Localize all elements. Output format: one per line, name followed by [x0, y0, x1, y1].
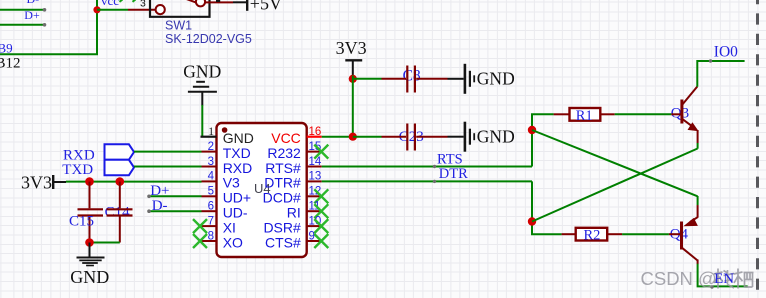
wire RTS riser to R1: [532, 114, 554, 166]
pin1 dot inside chip: [222, 127, 228, 133]
pin 8 line: [202, 240, 217, 242]
wire Q4 collector to EN: [698, 264, 748, 287]
wire DTR (pin13): [322, 180, 532, 182]
wire TXD to pin3: [134, 166, 202, 168]
power ground symbol (top, inverted earth): [188, 82, 217, 106]
wire Q3 collector to IO0: [697, 61, 744, 87]
no-ERC X pin 10: [314, 219, 328, 233]
wire diagonal RTS to Q4 emitter: [532, 130, 698, 196]
pin 14 line: [307, 166, 322, 168]
svg-text:5: 5: [208, 186, 214, 198]
svg-text:3V3: 3V3: [21, 172, 52, 192]
svg-text:R232: R232: [267, 145, 301, 161]
svg-text:D-: D-: [27, 0, 40, 6]
wire Q4 emitter to diagonal: [697, 196, 699, 205]
svg-text:16: 16: [309, 126, 322, 138]
wire to C8: [353, 78, 382, 80]
svg-text:UD+: UD+: [223, 190, 251, 206]
svg-text:6: 6: [208, 201, 214, 213]
pin 7 line: [202, 225, 217, 227]
wire C14 to GND node: [90, 242, 120, 244]
svg-text:3: 3: [140, 0, 146, 9]
3V3 stem: [53, 181, 66, 183]
svg-text:vcc: vcc: [101, 0, 119, 8]
SW1 contact circle pin2: [196, 0, 205, 6]
op IC U4 body: [217, 123, 307, 257]
wire D-: [0, 9, 45, 11]
svg-text:DTR#: DTR#: [264, 175, 301, 191]
pin 16 line (VCC): [307, 136, 322, 138]
svg-text:B9: B9: [0, 40, 13, 55]
SW1 contact circle pin3: [156, 5, 165, 14]
pin 11 line: [307, 210, 322, 212]
pin 13 line: [307, 180, 322, 182]
svg-text:RI: RI: [287, 205, 301, 221]
svg-text:RTS#: RTS#: [265, 160, 301, 176]
svg-text:SW1: SW1: [165, 18, 192, 32]
wire net B9 row: [0, 0, 97, 54]
ground GND (right of C8): [448, 64, 475, 94]
svg-text:SK-12D02-VG5: SK-12D02-VG5: [165, 32, 252, 46]
svg-text:7: 7: [208, 215, 214, 227]
svg-text:EN: EN: [714, 271, 734, 287]
power port 3V3 left bar: [52, 175, 54, 189]
capacitor C23: [382, 124, 448, 151]
watermark CJK glyphs: [714, 269, 754, 289]
wire D+ to pin5: [149, 195, 202, 197]
capacitor C8: [382, 66, 448, 93]
wire D+: [0, 24, 45, 26]
svg-text:GND: GND: [477, 126, 515, 146]
svg-text:R1: R1: [576, 108, 593, 124]
svg-text:DSR#: DSR#: [263, 219, 301, 235]
transistor Q4: [669, 205, 698, 264]
wire R2 to Q4 base: [622, 233, 669, 235]
vcc compile ticks: [120, 0, 123, 2]
resistor R1: [554, 113, 570, 115]
svg-text:DCD#: DCD#: [263, 190, 301, 206]
wire R1 to Q3 base: [615, 113, 672, 115]
svg-text:D+: D+: [24, 8, 40, 22]
wire to +5V: [233, 1, 247, 3]
svg-text:+5V: +5V: [250, 0, 282, 13]
svg-text:R2: R2: [584, 228, 601, 244]
no-ERC X pin 8: [193, 234, 207, 248]
wire vcc to SW1: [97, 9, 128, 11]
wire RTS (pin14): [322, 166, 532, 168]
wire diagonal DTR to Q3 emitter: [532, 149, 698, 222]
wire DTR dropper to R2: [532, 181, 562, 234]
svg-text:UD-: UD-: [223, 205, 248, 221]
no-ERC X pin 12: [314, 189, 328, 203]
capacitor C14: [107, 182, 133, 243]
junction GND node: [85, 238, 94, 247]
ground GND (right of C23): [448, 122, 475, 152]
pin 5 line: [202, 195, 217, 197]
svg-text:V3: V3: [223, 175, 240, 191]
junction vcc node: [93, 6, 100, 13]
pin 15 line: [307, 151, 322, 153]
svg-text:IO0: IO0: [714, 43, 738, 60]
harness arrow RXD: [105, 144, 135, 160]
svg-text:GND: GND: [223, 130, 254, 146]
wire to C23: [353, 136, 382, 138]
3V3 top stem: [352, 60, 354, 75]
svg-text:3: 3: [208, 156, 214, 168]
pin 9 line: [307, 240, 322, 242]
pin 4 line: [202, 180, 217, 182]
wire Q3 emitter to diagonal: [697, 143, 699, 149]
svg-text:GND: GND: [477, 69, 515, 89]
junction DTR node: [528, 217, 536, 225]
no-ERC X pin 11: [314, 204, 328, 218]
svg-text:VCC: VCC: [271, 130, 301, 146]
pin 3 lead of SW1: [128, 9, 156, 11]
svg-text:RXD: RXD: [223, 160, 253, 176]
svg-text:14: 14: [309, 156, 322, 168]
power ground symbol (bottom left): [77, 243, 105, 266]
svg-text:TXD: TXD: [62, 162, 93, 178]
svg-text:B12: B12: [0, 56, 21, 72]
junction VCC rail node: [349, 133, 357, 141]
svg-text:TXD: TXD: [223, 145, 251, 161]
svg-text:XO: XO: [223, 234, 243, 250]
wire RXD to pin2: [134, 151, 202, 153]
no-ERC X pin 15: [314, 145, 328, 159]
resistor R2: [562, 233, 576, 235]
svg-text:C15: C15: [69, 213, 94, 229]
svg-text:11: 11: [309, 201, 321, 213]
wire D- to pin6: [149, 210, 202, 212]
svg-text:8: 8: [208, 230, 214, 242]
junction RTS node: [528, 126, 536, 134]
svg-text:C8: C8: [403, 68, 421, 85]
svg-text:CSDN @: CSDN @: [641, 268, 717, 289]
svg-text:RXD: RXD: [63, 147, 95, 163]
pin 12 line: [307, 195, 322, 197]
svg-text:XI: XI: [223, 219, 236, 235]
svg-text:4: 4: [208, 171, 215, 183]
switch SW1 body: [150, 0, 210, 17]
svg-text:1: 1: [208, 126, 214, 138]
no-ERC X pin 7: [193, 219, 207, 233]
svg-text:9: 9: [309, 230, 315, 242]
harness arrow TXD: [105, 160, 135, 176]
wire 3V3 to pin4: [66, 181, 202, 183]
capacitor C15: [78, 182, 104, 243]
pin 1 line (GND): [201, 136, 217, 138]
pin 10 line: [307, 225, 322, 227]
svg-text:3V3: 3V3: [336, 38, 367, 58]
power port 3V3 top bar: [345, 59, 362, 61]
sheet border (dashed): [756, 0, 759, 298]
wire pin16 to VCC rail: [322, 136, 353, 138]
pin 6 line: [202, 210, 217, 212]
no-ERC X pin 9: [314, 234, 328, 248]
SW1 lever: [182, 0, 197, 3]
svg-text:CTS#: CTS#: [265, 234, 301, 250]
wire 3V3 down to VCC rail: [352, 76, 354, 137]
junction C14 node: [116, 177, 125, 186]
power port +5V bar: [246, 0, 248, 11]
svg-text:13: 13: [309, 171, 322, 183]
black tick (cut element): [216, 0, 220, 2]
svg-text:DTR: DTR: [439, 166, 468, 182]
wire GND to pin1: [201, 105, 203, 137]
transistor Q3: [671, 87, 697, 144]
pin 3 line: [202, 166, 217, 168]
svg-text:2: 2: [208, 141, 214, 153]
svg-text:C14: C14: [105, 205, 131, 221]
pin 2 line: [202, 151, 217, 153]
junction C15 node: [85, 177, 94, 186]
SW1 pin2 lead: [205, 1, 233, 3]
svg-text:GND: GND: [70, 267, 109, 287]
watermark CSDN: [641, 268, 717, 289]
junction 3V3/C8 node: [349, 75, 357, 83]
svg-text:GND: GND: [183, 62, 221, 82]
